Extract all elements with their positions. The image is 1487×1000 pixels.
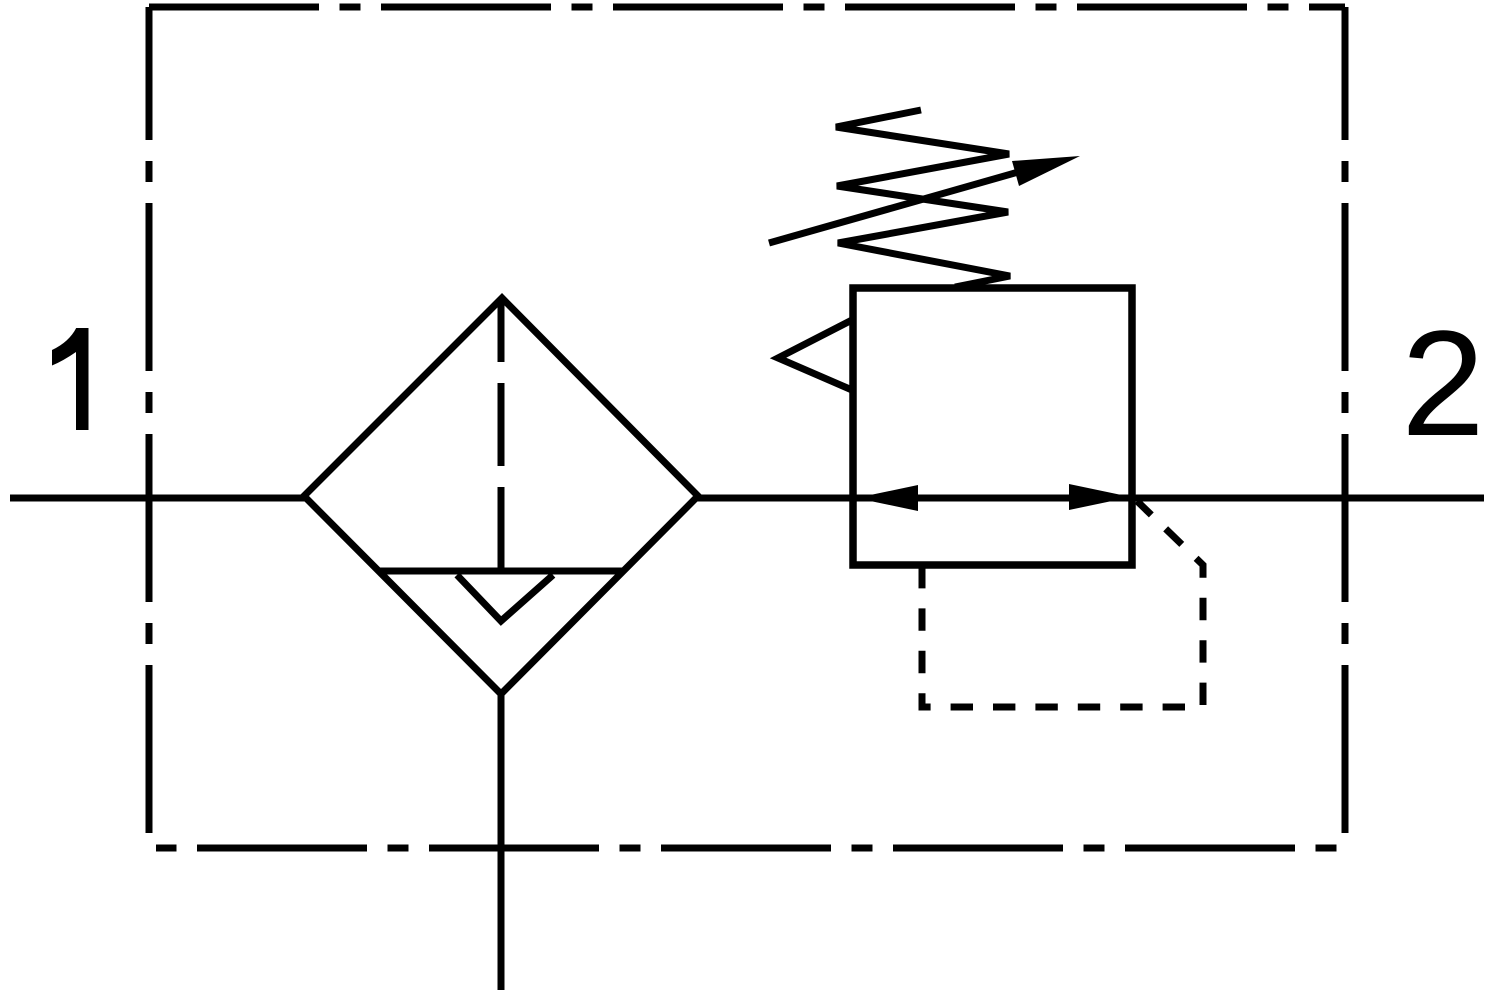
svg-text:2: 2: [1401, 299, 1484, 467]
regulator R1: relief vent triangle: [778, 320, 852, 390]
regulator R1: valve body square: [853, 288, 1132, 565]
enclosure border left (dash-dot): [146, 7, 153, 833]
port label 1: [52, 328, 89, 430]
filter F1: diamond body: [304, 298, 698, 694]
enclosure border right (dash-dot): [1342, 7, 1349, 833]
regulator R1: left flow arrowhead: [856, 485, 918, 511]
regulator R1: adjustment spring: [836, 110, 1010, 287]
regulator R1: adjustment arrow shaft: [769, 163, 1050, 243]
filter F1: condensate V notch: [457, 575, 553, 621]
filter F1: separator horizontal line: [379, 568, 623, 575]
filter F1: dashed element line: [498, 298, 505, 571]
wire: flow line from filter to port 2: [696, 495, 1484, 502]
wire: flow line from port 1 to filter: [10, 495, 306, 502]
enclosure border bottom (dash-dot): [156, 845, 1345, 852]
wire: drain line: [498, 694, 505, 990]
enclosure border top (dash-dot): [149, 4, 1345, 11]
regulator R1: adjustment arrowhead: [1012, 156, 1080, 186]
pilot line (dashed feedback): [922, 501, 1203, 707]
regulator R1: right flow arrowhead: [1069, 484, 1131, 510]
